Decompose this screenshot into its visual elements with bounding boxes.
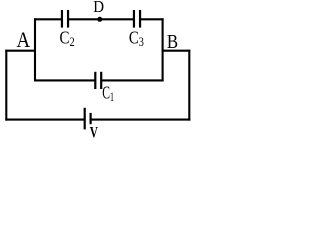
wire: outer right vertical (B down to bottom rail) — [188, 50, 190, 121]
wire: inner right vertical (top rail to middle rail) — [162, 18, 164, 81]
svg-text:B: B — [167, 31, 178, 53]
svg-text:D: D — [93, 0, 104, 16]
capacitor C2 — [62, 10, 68, 28]
svg-text:C1: C1 — [102, 82, 114, 104]
capacitor C1 — [95, 72, 101, 89]
wire: bottom rail left segment (to battery) — [5, 119, 84, 121]
battery V — [85, 108, 91, 130]
wire: node A stub (outer left to inner left column) — [5, 50, 36, 52]
wire: middle rail right segment (C1 to B column) — [101, 79, 163, 81]
wire: outer left vertical (A down to bottom rail) — [5, 50, 7, 121]
svg-text:A: A — [17, 27, 31, 52]
capacitor C3 — [134, 10, 140, 28]
node D junction dot — [97, 17, 102, 22]
svg-text:V: V — [90, 125, 99, 142]
wire: inner left vertical (top rail to middle rail) — [34, 18, 36, 81]
wire: top rail middle segment (C2 to C3 through node D) — [68, 18, 134, 20]
wire: node B stub (inner right column to outer right) — [162, 50, 191, 52]
svg-text:C2: C2 — [60, 28, 75, 50]
wire: middle rail left segment (A column to C1) — [34, 79, 95, 81]
wire: bottom rail right segment (battery to outer right) — [91, 119, 191, 121]
wire: top rail left segment (node A column to C2) — [34, 18, 62, 20]
svg-text:C3: C3 — [129, 28, 144, 50]
wire: top rail right segment (C3 to node B column) — [140, 18, 164, 20]
